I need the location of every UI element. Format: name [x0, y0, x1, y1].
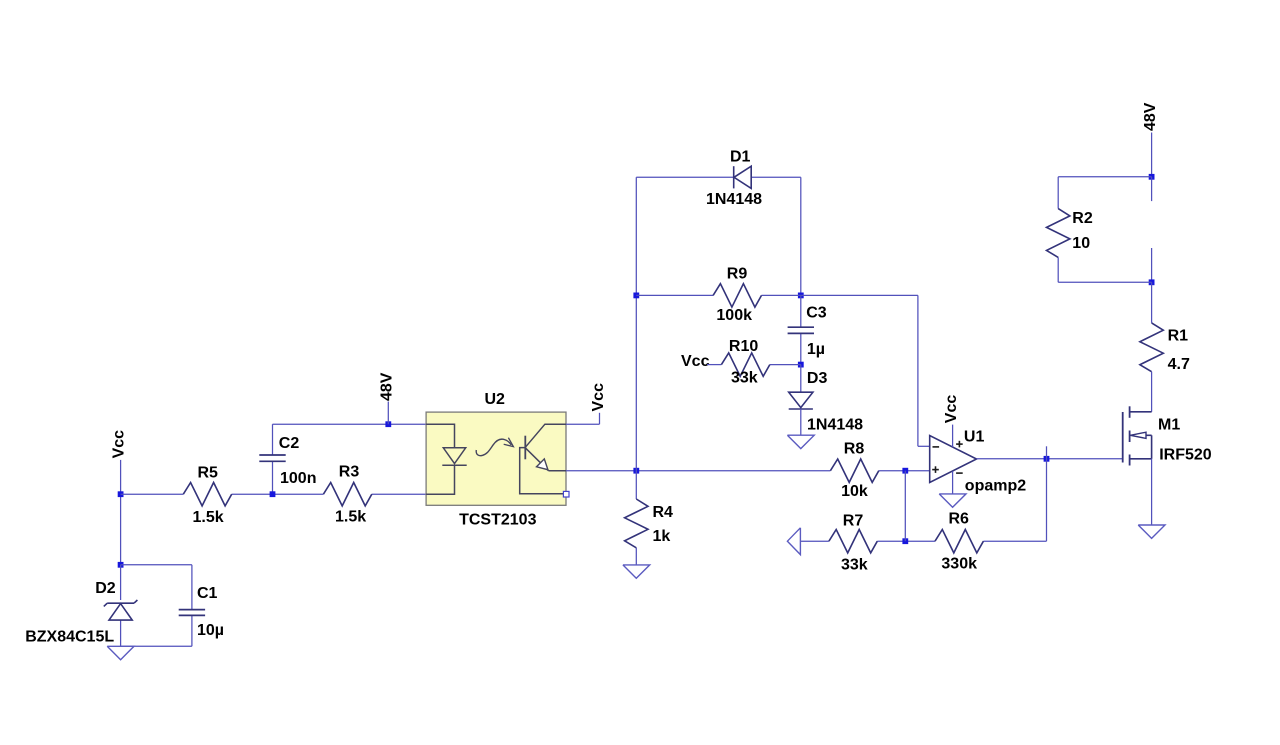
svg-text:C3: C3 [806, 305, 827, 322]
svg-text:R8: R8 [844, 440, 865, 457]
svg-text:Vcc: Vcc [943, 395, 960, 424]
svg-text:R6: R6 [949, 510, 970, 527]
svg-text:C2: C2 [279, 435, 300, 452]
svg-text:BZX84C15L: BZX84C15L [25, 628, 114, 645]
svg-text:100n: 100n [280, 470, 316, 487]
svg-text:Vcc: Vcc [681, 353, 710, 370]
svg-text:48V: 48V [1142, 102, 1159, 131]
svg-text:33k: 33k [731, 370, 758, 387]
svg-text:D1: D1 [730, 148, 751, 165]
svg-text:TCST2103: TCST2103 [459, 511, 536, 528]
svg-text:330k: 330k [941, 556, 977, 573]
svg-text:R3: R3 [339, 464, 360, 481]
svg-text:R1: R1 [1168, 328, 1189, 345]
svg-text:1k: 1k [653, 528, 671, 545]
svg-text:IRF520: IRF520 [1159, 447, 1212, 464]
svg-text:R5: R5 [198, 465, 219, 482]
svg-text:D3: D3 [807, 370, 828, 387]
svg-text:D2: D2 [95, 580, 116, 597]
svg-text:10: 10 [1072, 235, 1090, 252]
svg-text:1N4148: 1N4148 [807, 417, 863, 434]
svg-text:10µ: 10µ [197, 622, 224, 639]
svg-text:Vcc: Vcc [111, 430, 128, 459]
svg-text:C1: C1 [197, 585, 218, 602]
svg-text:48V: 48V [379, 372, 396, 401]
svg-text:R2: R2 [1072, 210, 1093, 227]
svg-text:1µ: 1µ [807, 341, 825, 358]
svg-text:4.7: 4.7 [1168, 356, 1190, 373]
svg-text:R9: R9 [727, 265, 748, 282]
svg-text:1.5k: 1.5k [193, 509, 224, 526]
svg-text:U2: U2 [485, 391, 506, 408]
svg-text:M1: M1 [1158, 416, 1180, 433]
svg-text:100k: 100k [716, 307, 752, 324]
svg-text:1N4148: 1N4148 [706, 191, 762, 208]
svg-text:33k: 33k [841, 557, 868, 574]
svg-text:1.5k: 1.5k [335, 508, 366, 525]
svg-text:Vcc: Vcc [590, 383, 607, 412]
svg-text:R7: R7 [843, 513, 864, 530]
svg-text:U1: U1 [964, 428, 985, 445]
svg-text:opamp2: opamp2 [965, 477, 1026, 494]
svg-text:R10: R10 [729, 338, 758, 355]
svg-text:R4: R4 [653, 504, 674, 521]
svg-text:10k: 10k [841, 483, 868, 500]
